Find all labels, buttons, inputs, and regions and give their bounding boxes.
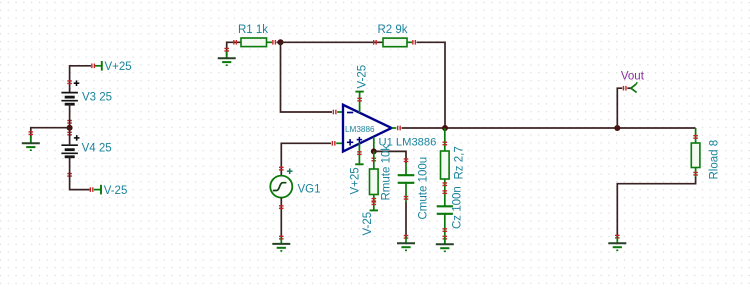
svg-text:V-25: V-25 [362, 212, 374, 236]
wire ground stub to R1 [224, 42, 241, 58]
svg-text:R1 1k: R1 1k [238, 24, 268, 36]
svg-text:V4 25: V4 25 [82, 143, 112, 155]
wire junction to ground left [29, 128, 70, 143]
jumper V+25 at U1 bottom [349, 164, 363, 194]
svg-text:V+25: V+25 [349, 167, 361, 194]
svg-text:Cz 100n: Cz 100n [452, 186, 464, 229]
svg-text:VG1: VG1 [298, 183, 321, 195]
wire node A to inverting input [281, 42, 343, 114]
resistor Rz [441, 128, 466, 206]
svg-text:LM3886: LM3886 [345, 125, 375, 134]
svg-text:V-25: V-25 [104, 185, 128, 197]
ground under Cmute [397, 237, 415, 251]
wire V3 top to V+25 tag [70, 64, 95, 93]
svg-text:Vout: Vout [621, 70, 645, 82]
svg-text:V-25: V-25 [357, 65, 369, 89]
node mute junction [371, 148, 377, 154]
capacitor Cz [437, 186, 464, 243]
svg-text:V+25: V+25 [105, 61, 132, 73]
svg-text:Rload 8: Rload 8 [708, 140, 720, 180]
ground under Cz [436, 238, 454, 252]
jumper V+25 [95, 61, 132, 73]
wire VG1 to noninverting input [279, 141, 343, 176]
svg-text:V3 25: V3 25 [82, 92, 112, 104]
wire R2 to output node (feedback) [417, 42, 445, 128]
wire mute node to Cmute [374, 151, 406, 163]
node output junction [442, 125, 448, 131]
wire U1 output to Rload corner [402, 127, 696, 129]
U1 top supply pin stub [357, 92, 362, 113]
battery V4 [61, 132, 111, 176]
svg-text:Rmute 10k: Rmute 10k [381, 145, 393, 201]
resistor Rmute [370, 145, 393, 210]
svg-text:Rz 2,7: Rz 2,7 [453, 146, 465, 179]
battery V3 [61, 80, 112, 123]
wire VG1 to ground [279, 198, 284, 239]
resistor R2 [374, 24, 416, 47]
U1 mute pin stub [373, 137, 375, 152]
U1 output pin [392, 126, 401, 131]
wire V3 bottom to mid junction [69, 104, 71, 128]
ground under Rload return [608, 237, 626, 251]
capacitor Cmute [398, 157, 430, 220]
U1 V+ pin stub [357, 143, 362, 164]
ground under VG1 [272, 237, 290, 251]
svg-text:Cmute 100u: Cmute 100u [417, 157, 429, 220]
wire Rload bottom to ground [615, 177, 696, 238]
op-amp U1 LM3886 [343, 105, 436, 152]
resistor R1 [234, 24, 276, 47]
node Vout junction [614, 125, 620, 131]
probe Vout [621, 70, 645, 92]
wire V4 bottom to V-25 tag [70, 157, 93, 192]
wire R1 to node A [277, 41, 281, 43]
wire junction to V4 top [69, 128, 71, 146]
generator VG1 [270, 168, 320, 197]
node A junction [278, 39, 284, 45]
node mid supply junction [67, 125, 73, 131]
jumper V-25 [94, 185, 127, 197]
wire node A to R2 [281, 41, 384, 43]
ground left [22, 137, 40, 151]
resistor Rload [691, 128, 720, 180]
wire Vout stub [617, 86, 626, 128]
svg-text:R2 9k: R2 9k [377, 24, 407, 36]
jumper V-25 at U1 top [355, 65, 368, 92]
jumper V-25 under Rmute [362, 210, 378, 235]
wire Cmute to ground [404, 202, 409, 238]
ground under R1 input [218, 52, 236, 65]
